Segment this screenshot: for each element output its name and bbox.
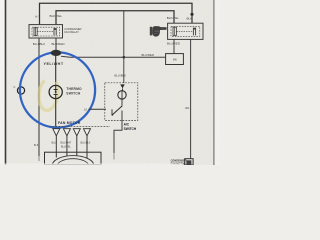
scan noise: [0, 0, 220, 165]
fan motor connector (top of circle): [51, 50, 62, 56]
pin wires to motor: [56, 136, 87, 152]
indicator lamp: [118, 91, 126, 99]
wire right margin: [213, 0, 215, 165]
dashed connector separator: [50, 125, 111, 127]
connector H6 box: [166, 54, 184, 65]
diode in A/C switch: [120, 84, 125, 88]
junction dot on BLK wire: [190, 13, 193, 16]
switch contact: [112, 106, 122, 115]
wire BLU/RED (relay to motor connector): [55, 38, 57, 52]
connector triangle pins: [53, 129, 91, 136]
wire BLU/BLK (relay to bottom, long left drop): [38, 38, 40, 156]
condenser fan relay box: [29, 25, 63, 38]
wire thermo to A/C switch (horizontal): [89, 108, 107, 110]
A/C switch box (dashed): [105, 83, 138, 121]
bus 2 (hot feed 2): [56, 11, 174, 25]
page edge line: [5, 0, 7, 165]
bus top (hot feed 1): [40, 3, 193, 25]
bottom right connector box: [185, 159, 193, 165]
motor case bump (left of circle): [17, 87, 24, 94]
wire tap to A/C switch: [123, 11, 125, 83]
wire BLK long drop to condenser fan motor connector: [190, 39, 192, 158]
A/C switch exit wire: [114, 120, 122, 153]
wire thermo switch to connector pin 1: [55, 98, 57, 128]
thermo switch: [49, 85, 62, 98]
wire BLU/RED to H6 connector: [173, 39, 175, 53]
wire into thermo switch: [55, 55, 57, 86]
radiator fan relay box: [168, 23, 203, 39]
page bottom fade: [0, 163, 183, 165]
yellow highlighter loop: [37, 76, 60, 111]
wire BLU/RED horizontal to H6 box: [61, 56, 166, 57]
hand pointer icon: [150, 26, 167, 36]
fan motor body: [45, 152, 102, 176]
fan motor highlight circle (blue): [20, 52, 95, 127]
